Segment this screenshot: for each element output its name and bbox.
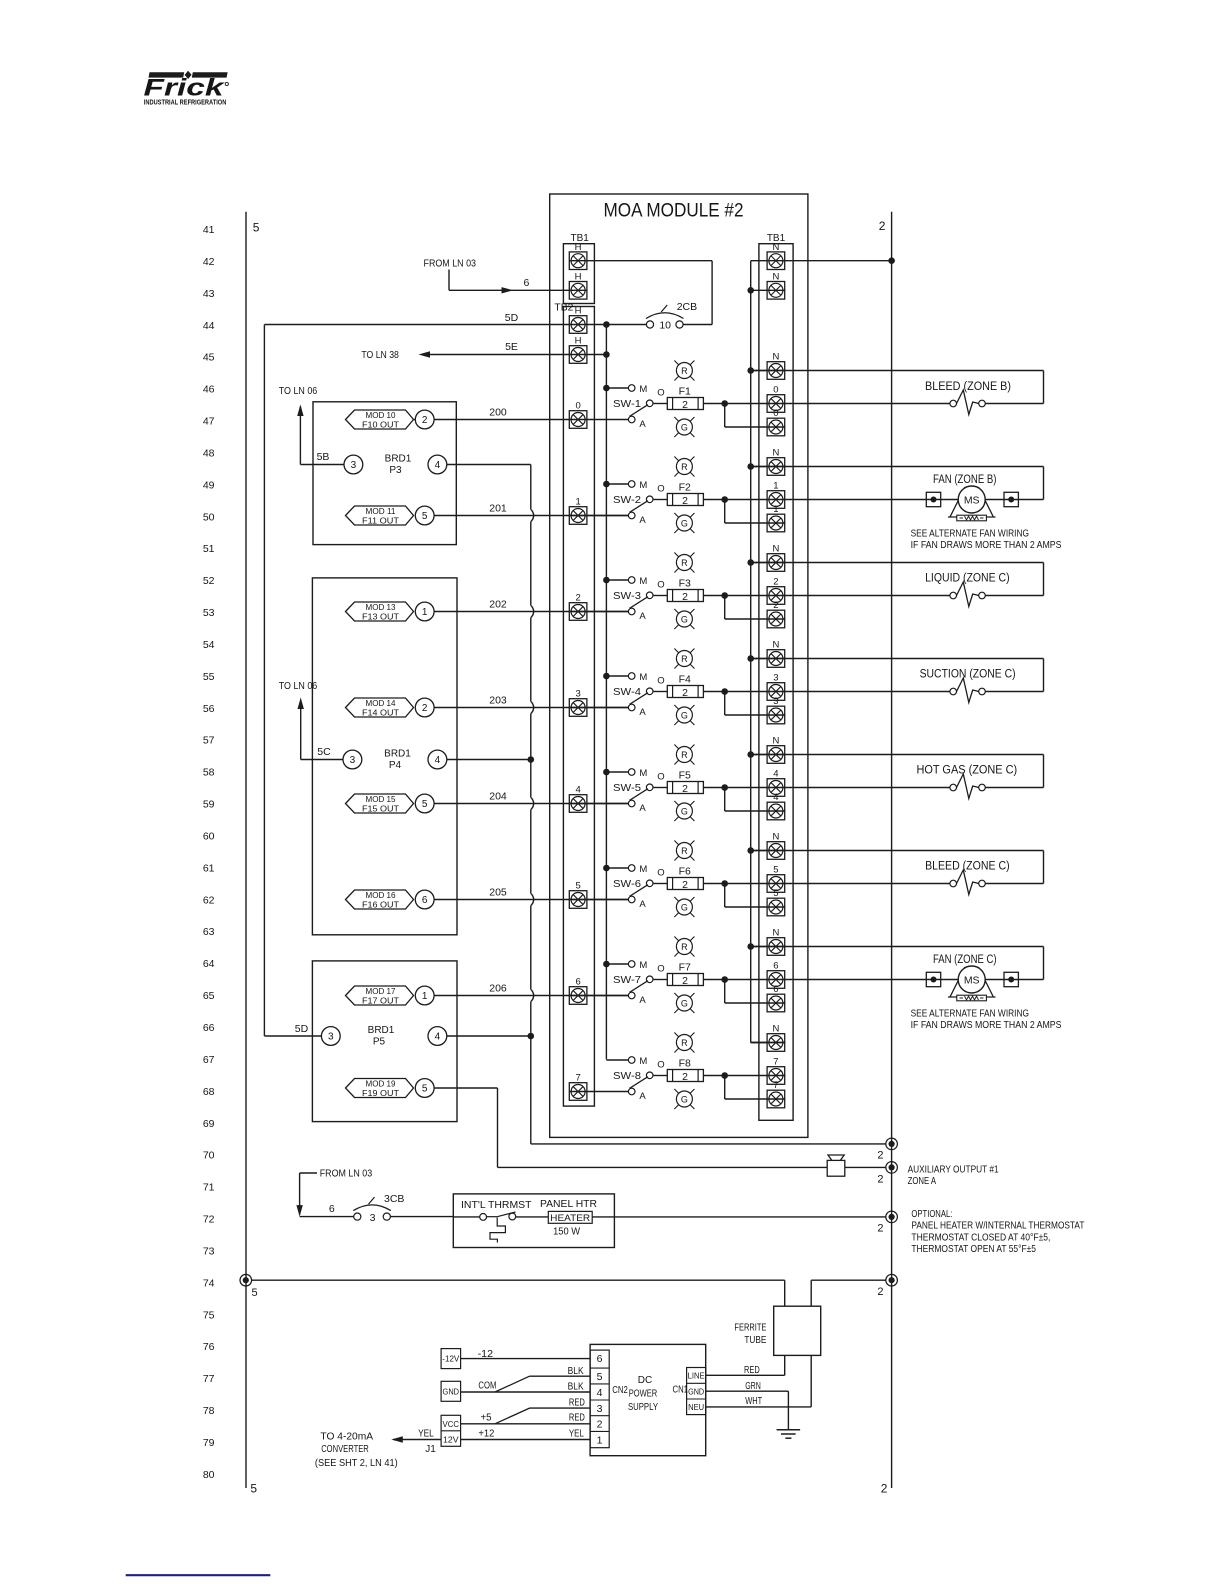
svg-text:2: 2 (879, 219, 886, 233)
svg-text:M: M (639, 1056, 647, 1067)
svg-text:F1: F1 (679, 386, 691, 398)
svg-text:TO LN 06: TO LN 06 (279, 385, 318, 397)
svg-text:66: 66 (203, 1022, 215, 1034)
svg-text:2: 2 (682, 975, 688, 987)
svg-text:2: 2 (682, 879, 688, 891)
svg-text:SEE ALTERNATE FAN WIRING: SEE ALTERNATE FAN WIRING (911, 527, 1029, 539)
svg-text:4: 4 (435, 1032, 441, 1043)
svg-text:2: 2 (597, 1419, 603, 1431)
svg-text:SEE ALTERNATE FAN WIRING: SEE ALTERNATE FAN WIRING (911, 1007, 1029, 1019)
svg-text:BLK: BLK (568, 1366, 584, 1377)
svg-text:+5: +5 (481, 1413, 492, 1424)
svg-text:5B: 5B (317, 451, 330, 463)
svg-text:2: 2 (682, 495, 688, 507)
svg-text:G: G (681, 518, 688, 528)
svg-text:SW-5: SW-5 (613, 782, 641, 794)
svg-text:45: 45 (203, 352, 215, 364)
svg-text:RED: RED (744, 1365, 760, 1376)
svg-text:F5: F5 (679, 770, 691, 782)
svg-text:PANEL HTR: PANEL HTR (540, 1198, 597, 1210)
svg-text:5: 5 (253, 221, 260, 235)
svg-text:1: 1 (422, 991, 428, 1002)
svg-text:A: A (639, 419, 646, 430)
svg-text:OPTIONAL:: OPTIONAL: (911, 1208, 952, 1220)
svg-text:-12V: -12V (442, 1355, 460, 1364)
svg-text:4: 4 (773, 769, 778, 780)
svg-text:63: 63 (203, 926, 215, 938)
svg-text:5D: 5D (295, 1023, 309, 1035)
svg-text:60: 60 (203, 830, 215, 842)
svg-text:G: G (681, 614, 688, 624)
svg-text:5E: 5E (505, 341, 518, 353)
svg-text:4: 4 (773, 792, 778, 803)
svg-text:54: 54 (203, 639, 215, 651)
svg-text:BLEED (ZONE B): BLEED (ZONE B) (925, 381, 1011, 393)
svg-text:H: H (575, 306, 582, 317)
svg-text:MOD 10: MOD 10 (366, 410, 396, 420)
svg-text:BRD1: BRD1 (384, 749, 411, 760)
svg-text:7: 7 (773, 1080, 778, 1091)
svg-text:1: 1 (597, 1434, 603, 1446)
svg-text:5: 5 (252, 1287, 258, 1299)
svg-text:R: R (681, 1038, 688, 1048)
svg-text:BLK: BLK (568, 1382, 584, 1393)
svg-text:5: 5 (597, 1371, 603, 1383)
svg-text:3CB: 3CB (384, 1193, 404, 1205)
svg-text:TO LN 38: TO LN 38 (361, 349, 399, 361)
svg-text:MOD 14: MOD 14 (366, 698, 396, 708)
svg-text:CONVERTER: CONVERTER (321, 1443, 369, 1455)
svg-text:R: R (681, 750, 688, 760)
svg-text:G: G (681, 422, 688, 432)
svg-text:PANEL HEATER W/INTERNAL THERMO: PANEL HEATER W/INTERNAL THERMOSTAT (911, 1220, 1084, 1232)
svg-text:FAN (ZONE B): FAN (ZONE B) (933, 474, 997, 486)
svg-text:2CB: 2CB (677, 301, 697, 313)
svg-text:2: 2 (877, 1223, 883, 1235)
svg-text:POWER: POWER (629, 1389, 658, 1400)
svg-text:(SEE SHT 2, LN 41): (SEE SHT 2, LN 41) (315, 1457, 398, 1469)
svg-text:M: M (639, 576, 647, 587)
svg-text:5: 5 (773, 865, 778, 876)
svg-text:79: 79 (203, 1437, 215, 1449)
svg-text:5: 5 (422, 1084, 428, 1095)
svg-text:A: A (639, 803, 646, 814)
svg-text:150 W: 150 W (553, 1227, 581, 1238)
svg-text:46: 46 (203, 384, 215, 396)
svg-text:5D: 5D (505, 312, 519, 324)
svg-text:GND: GND (443, 1387, 460, 1396)
svg-text:47: 47 (203, 416, 215, 428)
svg-text:5: 5 (575, 881, 580, 892)
svg-text:F2: F2 (679, 482, 691, 494)
svg-text:M: M (639, 960, 647, 971)
svg-text:FERRITE: FERRITE (734, 1322, 766, 1334)
svg-text:MS: MS (964, 494, 980, 506)
svg-text:RED: RED (569, 1413, 585, 1424)
svg-text:N: N (772, 352, 779, 363)
svg-text:SW-3: SW-3 (613, 590, 641, 602)
svg-text:H: H (575, 272, 582, 283)
svg-text:61: 61 (203, 862, 215, 874)
svg-text:SW-2: SW-2 (613, 494, 641, 506)
svg-text:BLEED (ZONE C): BLEED (ZONE C) (925, 861, 1010, 873)
svg-text:2: 2 (682, 591, 688, 603)
svg-text:53: 53 (203, 607, 215, 619)
svg-text:44: 44 (203, 320, 215, 332)
svg-text:M: M (639, 768, 647, 779)
svg-text:FROM LN 03: FROM LN 03 (424, 258, 477, 270)
svg-text:43: 43 (203, 288, 215, 300)
svg-text:4: 4 (597, 1387, 603, 1399)
svg-text:48: 48 (203, 447, 215, 459)
svg-text:FAN (ZONE C): FAN (ZONE C) (933, 954, 997, 966)
svg-text:A: A (639, 611, 646, 622)
svg-text:R: R (681, 558, 688, 568)
svg-text:3: 3 (351, 460, 357, 471)
svg-text:RED: RED (569, 1397, 585, 1408)
svg-text:R: R (681, 942, 688, 952)
svg-text:1: 1 (773, 504, 778, 515)
svg-text:F15 OUT: F15 OUT (362, 804, 400, 814)
svg-text:N: N (772, 242, 779, 253)
svg-text:77: 77 (203, 1373, 215, 1385)
svg-text:VCC: VCC (443, 1420, 460, 1429)
svg-text:G: G (681, 902, 688, 912)
svg-text:MOD 17: MOD 17 (366, 986, 396, 996)
svg-text:6: 6 (773, 984, 778, 995)
svg-text:71: 71 (203, 1182, 215, 1194)
svg-text:76: 76 (203, 1341, 215, 1353)
svg-text:49: 49 (203, 479, 215, 491)
svg-text:R: R (681, 654, 688, 664)
svg-text:ZONE A: ZONE A (908, 1175, 937, 1187)
svg-text:51: 51 (203, 543, 215, 555)
svg-text:AUXILIARY OUTPUT #1: AUXILIARY OUTPUT #1 (908, 1163, 999, 1175)
svg-text:SW-6: SW-6 (613, 878, 641, 890)
svg-text:2: 2 (773, 577, 778, 588)
svg-text:SW-8: SW-8 (613, 1070, 641, 1082)
svg-text:64: 64 (203, 958, 215, 970)
svg-text:4: 4 (435, 755, 441, 766)
svg-text:BRD1: BRD1 (368, 1025, 395, 1036)
svg-text:200: 200 (489, 407, 507, 419)
svg-text:O: O (657, 868, 664, 879)
svg-text:R: R (681, 366, 688, 376)
svg-text:2: 2 (575, 593, 580, 604)
svg-text:2: 2 (682, 399, 688, 411)
svg-text:MOA MODULE #2: MOA MODULE #2 (604, 201, 744, 222)
svg-text:6: 6 (422, 895, 428, 906)
svg-text:58: 58 (203, 767, 215, 779)
svg-text:O: O (657, 580, 664, 591)
svg-text:69: 69 (203, 1118, 215, 1130)
svg-text:M: M (639, 672, 647, 683)
svg-text:6: 6 (524, 277, 530, 289)
svg-text:SW-4: SW-4 (613, 686, 641, 698)
svg-text:205: 205 (489, 887, 507, 899)
svg-text:CN1: CN1 (673, 1385, 689, 1396)
svg-text:O: O (657, 1060, 664, 1071)
svg-text:N: N (772, 448, 779, 459)
svg-text:O: O (657, 772, 664, 783)
svg-text:GRN: GRN (745, 1381, 761, 1392)
svg-text:5: 5 (422, 799, 428, 810)
svg-text:F13 OUT: F13 OUT (362, 612, 400, 622)
svg-text:2: 2 (682, 687, 688, 699)
svg-text:M: M (639, 480, 647, 491)
svg-text:201: 201 (489, 503, 507, 515)
svg-text:YEL: YEL (569, 1428, 584, 1439)
svg-text:2: 2 (877, 1174, 883, 1186)
svg-text:P3: P3 (389, 465, 402, 476)
svg-text:R: R (681, 462, 688, 472)
svg-text:HOT GAS (ZONE C): HOT GAS (ZONE C) (917, 765, 1018, 777)
svg-text:G: G (681, 998, 688, 1008)
svg-text:TB2: TB2 (554, 303, 573, 314)
svg-text:0: 0 (575, 401, 580, 412)
svg-text:O: O (657, 676, 664, 687)
svg-text:3: 3 (773, 673, 778, 684)
svg-text:O: O (657, 484, 664, 495)
svg-text:5: 5 (422, 511, 428, 522)
svg-text:3: 3 (773, 696, 778, 707)
svg-text:IF FAN DRAWS MORE THAN 2 AMPS: IF FAN DRAWS MORE THAN 2 AMPS (911, 1019, 1062, 1031)
svg-text:57: 57 (203, 735, 215, 747)
svg-text:N: N (772, 832, 779, 843)
svg-text:F17 OUT: F17 OUT (362, 996, 400, 1006)
svg-text:202: 202 (489, 599, 507, 611)
svg-text:O: O (657, 964, 664, 975)
svg-text:78: 78 (203, 1405, 215, 1417)
svg-text:J1: J1 (425, 1444, 436, 1455)
svg-text:LINE: LINE (688, 1372, 705, 1381)
svg-text:G: G (681, 710, 688, 720)
svg-text:INT'L THRMST: INT'L THRMST (461, 1199, 532, 1211)
svg-text:G: G (681, 806, 688, 816)
svg-text:CN2: CN2 (612, 1385, 628, 1396)
svg-text:2: 2 (682, 783, 688, 795)
svg-text:N: N (772, 736, 779, 747)
svg-text:6: 6 (597, 1353, 603, 1365)
svg-text:80: 80 (203, 1469, 215, 1481)
svg-text:6: 6 (575, 977, 580, 988)
svg-text:TO LN 06: TO LN 06 (279, 680, 318, 692)
svg-text:3: 3 (597, 1403, 603, 1415)
svg-text:75: 75 (203, 1309, 215, 1321)
svg-text:N: N (772, 272, 779, 283)
svg-text:2: 2 (422, 415, 428, 426)
svg-text:62: 62 (203, 894, 215, 906)
svg-text:MOD 13: MOD 13 (366, 602, 396, 612)
svg-text:2: 2 (881, 1482, 888, 1496)
svg-text:MOD 16: MOD 16 (366, 890, 396, 900)
svg-text:HEATER: HEATER (550, 1213, 590, 1223)
svg-text:N: N (772, 544, 779, 555)
svg-text:WHT: WHT (745, 1396, 762, 1407)
svg-text:10: 10 (659, 320, 671, 332)
svg-text:F14 OUT: F14 OUT (362, 708, 400, 718)
svg-text:SUPPLY: SUPPLY (628, 1402, 658, 1413)
svg-text:NEU: NEU (688, 1403, 704, 1412)
svg-text:F19 OUT: F19 OUT (362, 1088, 400, 1098)
svg-text:6: 6 (773, 961, 778, 972)
svg-text:N: N (772, 640, 779, 651)
svg-text:0: 0 (773, 385, 778, 396)
svg-text:56: 56 (203, 703, 215, 715)
svg-text:0: 0 (773, 408, 778, 419)
svg-text:3: 3 (575, 689, 580, 700)
svg-text:YEL: YEL (418, 1428, 434, 1439)
svg-text:MOD 19: MOD 19 (366, 1079, 396, 1089)
svg-text:F8: F8 (679, 1058, 691, 1070)
svg-text:MOD 15: MOD 15 (366, 794, 396, 804)
svg-text:H: H (575, 336, 582, 347)
svg-text:65: 65 (203, 990, 215, 1002)
svg-text:7: 7 (773, 1057, 778, 1068)
svg-text:4: 4 (575, 785, 580, 796)
svg-text:5: 5 (250, 1482, 257, 1496)
svg-text:TUBE: TUBE (744, 1334, 766, 1346)
svg-text:TO 4-20mA: TO 4-20mA (320, 1430, 373, 1442)
svg-text:SW-7: SW-7 (613, 974, 641, 986)
svg-text:42: 42 (203, 256, 215, 268)
svg-text:F3: F3 (679, 578, 691, 590)
svg-text:F7: F7 (679, 962, 691, 974)
svg-text:LIQUID (ZONE C): LIQUID (ZONE C) (925, 573, 1010, 585)
svg-text:SUCTION (ZONE C): SUCTION (ZONE C) (920, 669, 1016, 681)
svg-text:SW-1: SW-1 (613, 398, 641, 410)
svg-text:6: 6 (329, 1203, 335, 1215)
svg-text:A: A (639, 995, 646, 1006)
svg-text:A: A (639, 515, 646, 526)
svg-text:204: 204 (489, 791, 507, 803)
svg-text:F10 OUT: F10 OUT (362, 420, 400, 430)
svg-text:M: M (639, 864, 647, 875)
svg-text:FROM LN 03: FROM LN 03 (320, 1168, 373, 1180)
svg-text:1: 1 (422, 607, 428, 618)
svg-text:2: 2 (422, 703, 428, 714)
svg-text:COM: COM (478, 1380, 496, 1391)
svg-text:G: G (681, 1094, 688, 1104)
svg-text:MS: MS (964, 974, 980, 986)
svg-text:A: A (639, 1091, 646, 1102)
svg-text:7: 7 (575, 1073, 580, 1084)
svg-text:5: 5 (773, 888, 778, 899)
svg-text:GND: GND (688, 1387, 704, 1396)
svg-text:206: 206 (489, 983, 507, 995)
svg-text:INDUSTRIAL REFRIGERATION: INDUSTRIAL REFRIGERATION (144, 98, 227, 107)
svg-text:2: 2 (877, 1150, 883, 1162)
svg-text:P4: P4 (389, 760, 402, 771)
svg-text:67: 67 (203, 1054, 215, 1066)
svg-text:70: 70 (203, 1150, 215, 1162)
svg-text:O: O (657, 388, 664, 399)
svg-text:-12: -12 (478, 1349, 494, 1360)
svg-text:P5: P5 (373, 1037, 386, 1048)
svg-text:203: 203 (489, 695, 507, 707)
svg-text:4: 4 (435, 460, 441, 471)
svg-text:N: N (772, 1024, 779, 1035)
svg-text:3: 3 (328, 1032, 334, 1043)
svg-text:12V: 12V (443, 1436, 459, 1445)
svg-text:M: M (639, 384, 647, 395)
svg-text:1: 1 (773, 481, 778, 492)
svg-text:F11 OUT: F11 OUT (362, 516, 400, 526)
svg-text:+12: +12 (478, 1428, 494, 1439)
svg-text:3: 3 (350, 755, 356, 766)
svg-text:THERMOSTAT OPEN AT 55°F±5: THERMOSTAT OPEN AT 55°F±5 (911, 1243, 1036, 1255)
svg-text:BRD1: BRD1 (385, 454, 412, 465)
svg-text:52: 52 (203, 575, 215, 587)
svg-text:1: 1 (575, 497, 580, 508)
svg-text:F6: F6 (679, 866, 691, 878)
svg-text:A: A (639, 899, 646, 910)
svg-text:41: 41 (203, 224, 215, 236)
svg-text:73: 73 (203, 1245, 215, 1257)
svg-text:MOD 11: MOD 11 (366, 506, 396, 516)
svg-text:IF FAN DRAWS MORE THAN 2 AMPS: IF FAN DRAWS MORE THAN 2 AMPS (911, 539, 1062, 551)
svg-text:68: 68 (203, 1086, 215, 1098)
svg-text:72: 72 (203, 1214, 215, 1226)
svg-text:5C: 5C (317, 746, 331, 758)
svg-text:F4: F4 (679, 674, 691, 686)
svg-text:A: A (639, 707, 646, 718)
svg-text:H: H (575, 242, 582, 253)
svg-text:2: 2 (682, 1071, 688, 1083)
svg-text:R: R (681, 846, 688, 856)
svg-text:F16 OUT: F16 OUT (362, 900, 400, 910)
svg-text:3: 3 (370, 1212, 376, 1224)
svg-text:74: 74 (203, 1277, 215, 1289)
svg-text:THERMOSTAT CLOSED AT 40°F±5,: THERMOSTAT CLOSED AT 40°F±5, (911, 1231, 1050, 1243)
svg-text:N: N (772, 928, 779, 939)
svg-text:2: 2 (773, 600, 778, 611)
svg-text:2: 2 (877, 1286, 883, 1298)
svg-text:59: 59 (203, 799, 215, 811)
svg-text:DC: DC (638, 1375, 652, 1386)
svg-text:50: 50 (203, 511, 215, 523)
svg-text:55: 55 (203, 671, 215, 683)
